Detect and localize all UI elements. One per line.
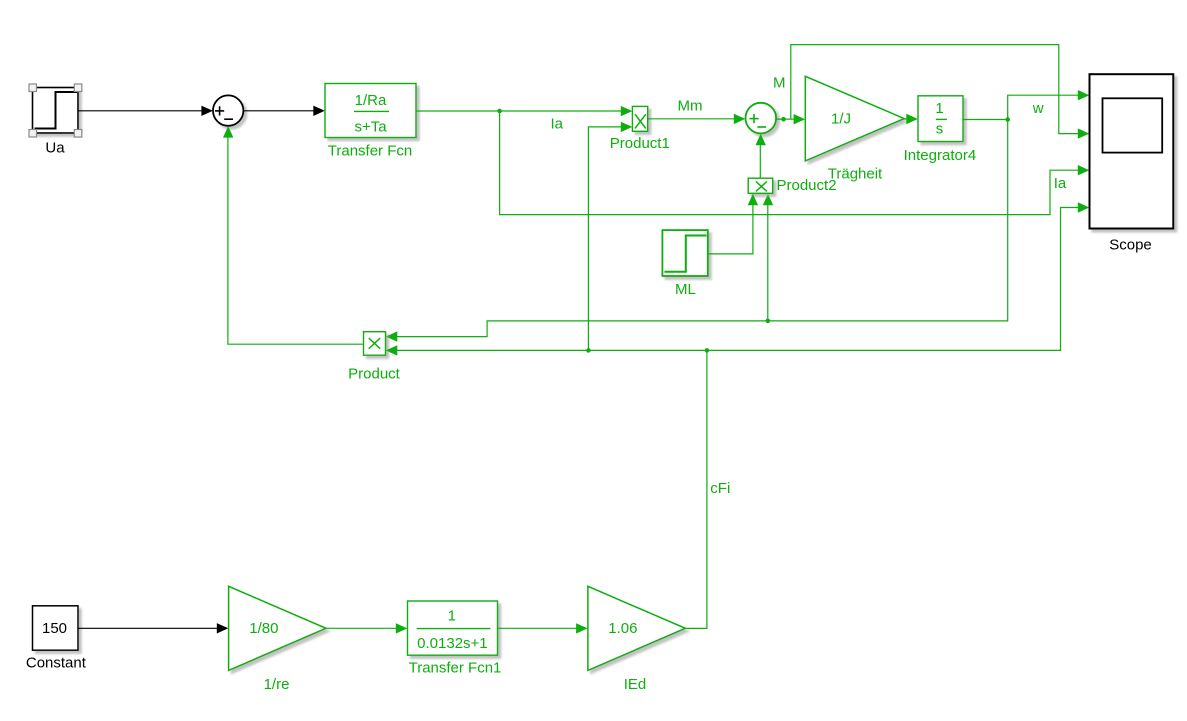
gain Trägheit 1/J xyxy=(805,76,904,182)
wire Sum1 to gain Trägheit with M branch xyxy=(776,114,805,124)
sum junction Sum (black) xyxy=(213,95,243,125)
wire Integrator4 output to junction xyxy=(963,119,1008,121)
wire cFi branch up to Product1 second input xyxy=(588,122,632,351)
gain IEd 1.06 xyxy=(588,586,685,693)
svg-text:1: 1 xyxy=(448,608,456,625)
svg-text:ML: ML xyxy=(675,281,696,298)
wire cFi horizontal to Product input2 and Scope port4 xyxy=(386,202,1090,355)
svg-text:Ua: Ua xyxy=(45,140,65,157)
svg-text:w: w xyxy=(1032,100,1044,117)
scope Scope xyxy=(1090,74,1174,253)
transfer function Transfer Fcn1 1/(0.0132s+1) xyxy=(408,601,502,677)
svg-text:cFi: cFi xyxy=(710,480,730,497)
transfer function Transfer Fcn 1/Ra/(s+Ta) xyxy=(325,84,416,160)
svg-text:s+Ta: s+Ta xyxy=(354,118,387,135)
node label Ia xyxy=(551,115,564,132)
node label Mm xyxy=(678,97,703,114)
svg-text:1.06: 1.06 xyxy=(608,620,637,637)
wire gain to Integrator4 xyxy=(904,114,918,124)
svg-text:M: M xyxy=(773,74,786,91)
node label M xyxy=(773,74,786,91)
svg-text:1: 1 xyxy=(935,100,943,117)
svg-text:1/80: 1/80 xyxy=(249,620,278,637)
svg-text:1/J: 1/J xyxy=(831,110,851,127)
svg-text:Integrator4: Integrator4 xyxy=(904,147,977,164)
gain 1/re 1/80 xyxy=(229,586,326,693)
junction dot Ia branch xyxy=(497,109,502,114)
step source Ua xyxy=(29,84,82,157)
wire Product output left and up to black Sum minus input xyxy=(223,126,363,344)
svg-text:Transfer Fcn1: Transfer Fcn1 xyxy=(409,660,502,677)
sum junction Sum1 (green) xyxy=(746,103,777,134)
junction dot cFi vertical xyxy=(705,348,710,353)
wire Product2 to Sum1 minus input xyxy=(756,134,766,178)
product block Product2 xyxy=(748,177,836,194)
wire cFi vertical from IEd xyxy=(685,350,707,628)
svg-text:IEd: IEd xyxy=(624,676,647,693)
svg-text:1/re: 1/re xyxy=(264,676,290,693)
wire ML to Product2 input1 xyxy=(708,194,758,254)
svg-text:Ia: Ia xyxy=(1054,175,1067,192)
wire M branch up over to Scope port2 xyxy=(791,45,1090,139)
wire Constant to gain 1/re xyxy=(78,623,228,633)
svg-text:150: 150 xyxy=(42,620,67,637)
svg-text:Product: Product xyxy=(348,366,401,383)
svg-text:Scope: Scope xyxy=(1109,237,1152,254)
wire Ua to Sum xyxy=(78,106,213,116)
wire w branch up to Product2 input2 xyxy=(763,194,773,321)
wire Transfer Fcn to Product1 (Ia) xyxy=(416,106,632,116)
wire w up to Scope port1 xyxy=(1008,90,1090,120)
wire Ia branch down and right to Scope port3 xyxy=(500,111,1090,215)
svg-text:Transfer Fcn: Transfer Fcn xyxy=(328,143,412,160)
junction dot on cFi wire xyxy=(586,348,591,353)
node label Ia (scope) xyxy=(1054,175,1067,192)
product block Product1 xyxy=(610,106,670,152)
svg-text:Mm: Mm xyxy=(678,97,703,114)
wire w feedback down-left to Product input1 xyxy=(386,120,1008,342)
wire Sum to Transfer Fcn xyxy=(244,106,325,116)
svg-text:Ia: Ia xyxy=(551,115,564,132)
svg-text:Product1: Product1 xyxy=(610,135,670,152)
constant Constant 150 xyxy=(26,606,87,672)
svg-text:Product2: Product2 xyxy=(777,177,837,194)
wire Transfer Fcn1 to IEd xyxy=(497,623,587,633)
integrator Integrator4 1/s xyxy=(904,96,977,164)
svg-text:1/Ra: 1/Ra xyxy=(355,92,387,109)
wire 1/re to Transfer Fcn1 xyxy=(326,623,407,633)
step source ML xyxy=(662,230,707,298)
node label cFi xyxy=(710,480,730,497)
wire Product1 to Sum1 (Mm) xyxy=(648,114,746,124)
junction dot w xyxy=(1005,117,1010,122)
junction dot w to Product2 xyxy=(766,319,771,324)
product block Product (flipped) xyxy=(348,332,401,383)
svg-text:0.0132s+1: 0.0132s+1 xyxy=(417,635,487,652)
junction dot M branch xyxy=(781,117,786,122)
node label w xyxy=(1032,100,1044,117)
svg-text:s: s xyxy=(936,121,944,138)
svg-text:Constant: Constant xyxy=(26,655,87,672)
